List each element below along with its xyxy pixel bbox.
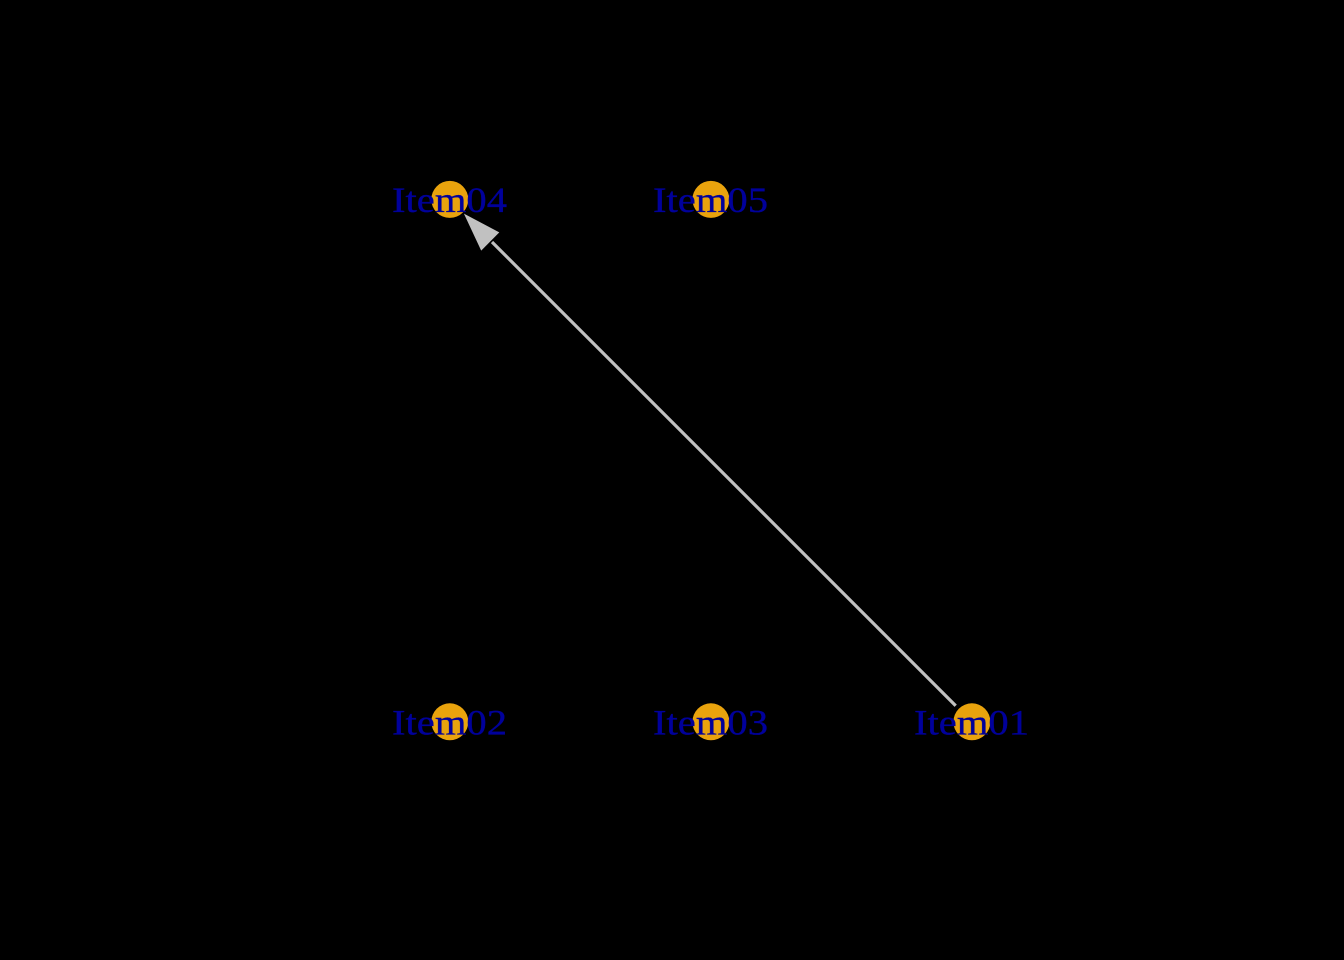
- arrowhead at Item04: [464, 214, 499, 251]
- node Item04: [431, 181, 468, 218]
- node Item03: [692, 703, 729, 740]
- node Item01: [953, 703, 990, 740]
- edge Item01->Item04 (shaft): [492, 242, 956, 706]
- svg-text:Item02: Item02: [392, 702, 507, 742]
- node Item05: [692, 181, 729, 218]
- node Item02: [431, 703, 468, 740]
- svg-text:Item01: Item01: [914, 702, 1029, 742]
- svg-text:Item05: Item05: [653, 180, 768, 220]
- svg-text:Item03: Item03: [653, 702, 768, 742]
- svg-text:Item04: Item04: [392, 180, 507, 220]
